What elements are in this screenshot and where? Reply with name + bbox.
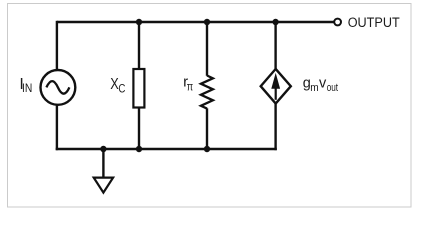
wire g_m source top lead [274,22,276,70]
svg-text:IN: IN [22,81,32,95]
wire ground stub [102,149,104,177]
svg-text:C: C [118,82,125,96]
wire r_pi bottom lead [206,108,208,149]
node junction bottom X_C [136,146,142,152]
svg-text:m: m [310,82,318,94]
dependent current source g_m*v_out (diamond) [261,69,291,104]
arrow of dependent source [275,87,277,100]
wire g_m source bottom lead [274,103,276,150]
wire I_IN source top lead [56,21,58,70]
node junction top r_pi [204,19,210,25]
ground [94,178,113,193]
resistor r_pi (zigzag) [201,76,213,109]
wire X_C bottom lead [138,108,140,150]
node junction top g_m source [272,19,278,25]
svg-text:OUTPUT: OUTPUT [348,15,400,31]
svg-text:π: π [187,79,193,93]
current source I_IN (AC source) [41,70,76,105]
wire X_C top lead [138,22,140,70]
capacitor reactance X_C (box impedance) [133,69,144,108]
node junction bottom ground tap [100,146,106,152]
wire I_IN source bottom lead [56,105,58,151]
node OUTPUT terminal [334,19,341,26]
svg-text:out: out [327,82,338,94]
wire bottom rail [56,148,277,150]
wire r_pi top lead [206,22,208,76]
node junction top X_C [136,19,142,25]
wire top rail [57,21,334,23]
node junction bottom r_pi [204,146,210,152]
